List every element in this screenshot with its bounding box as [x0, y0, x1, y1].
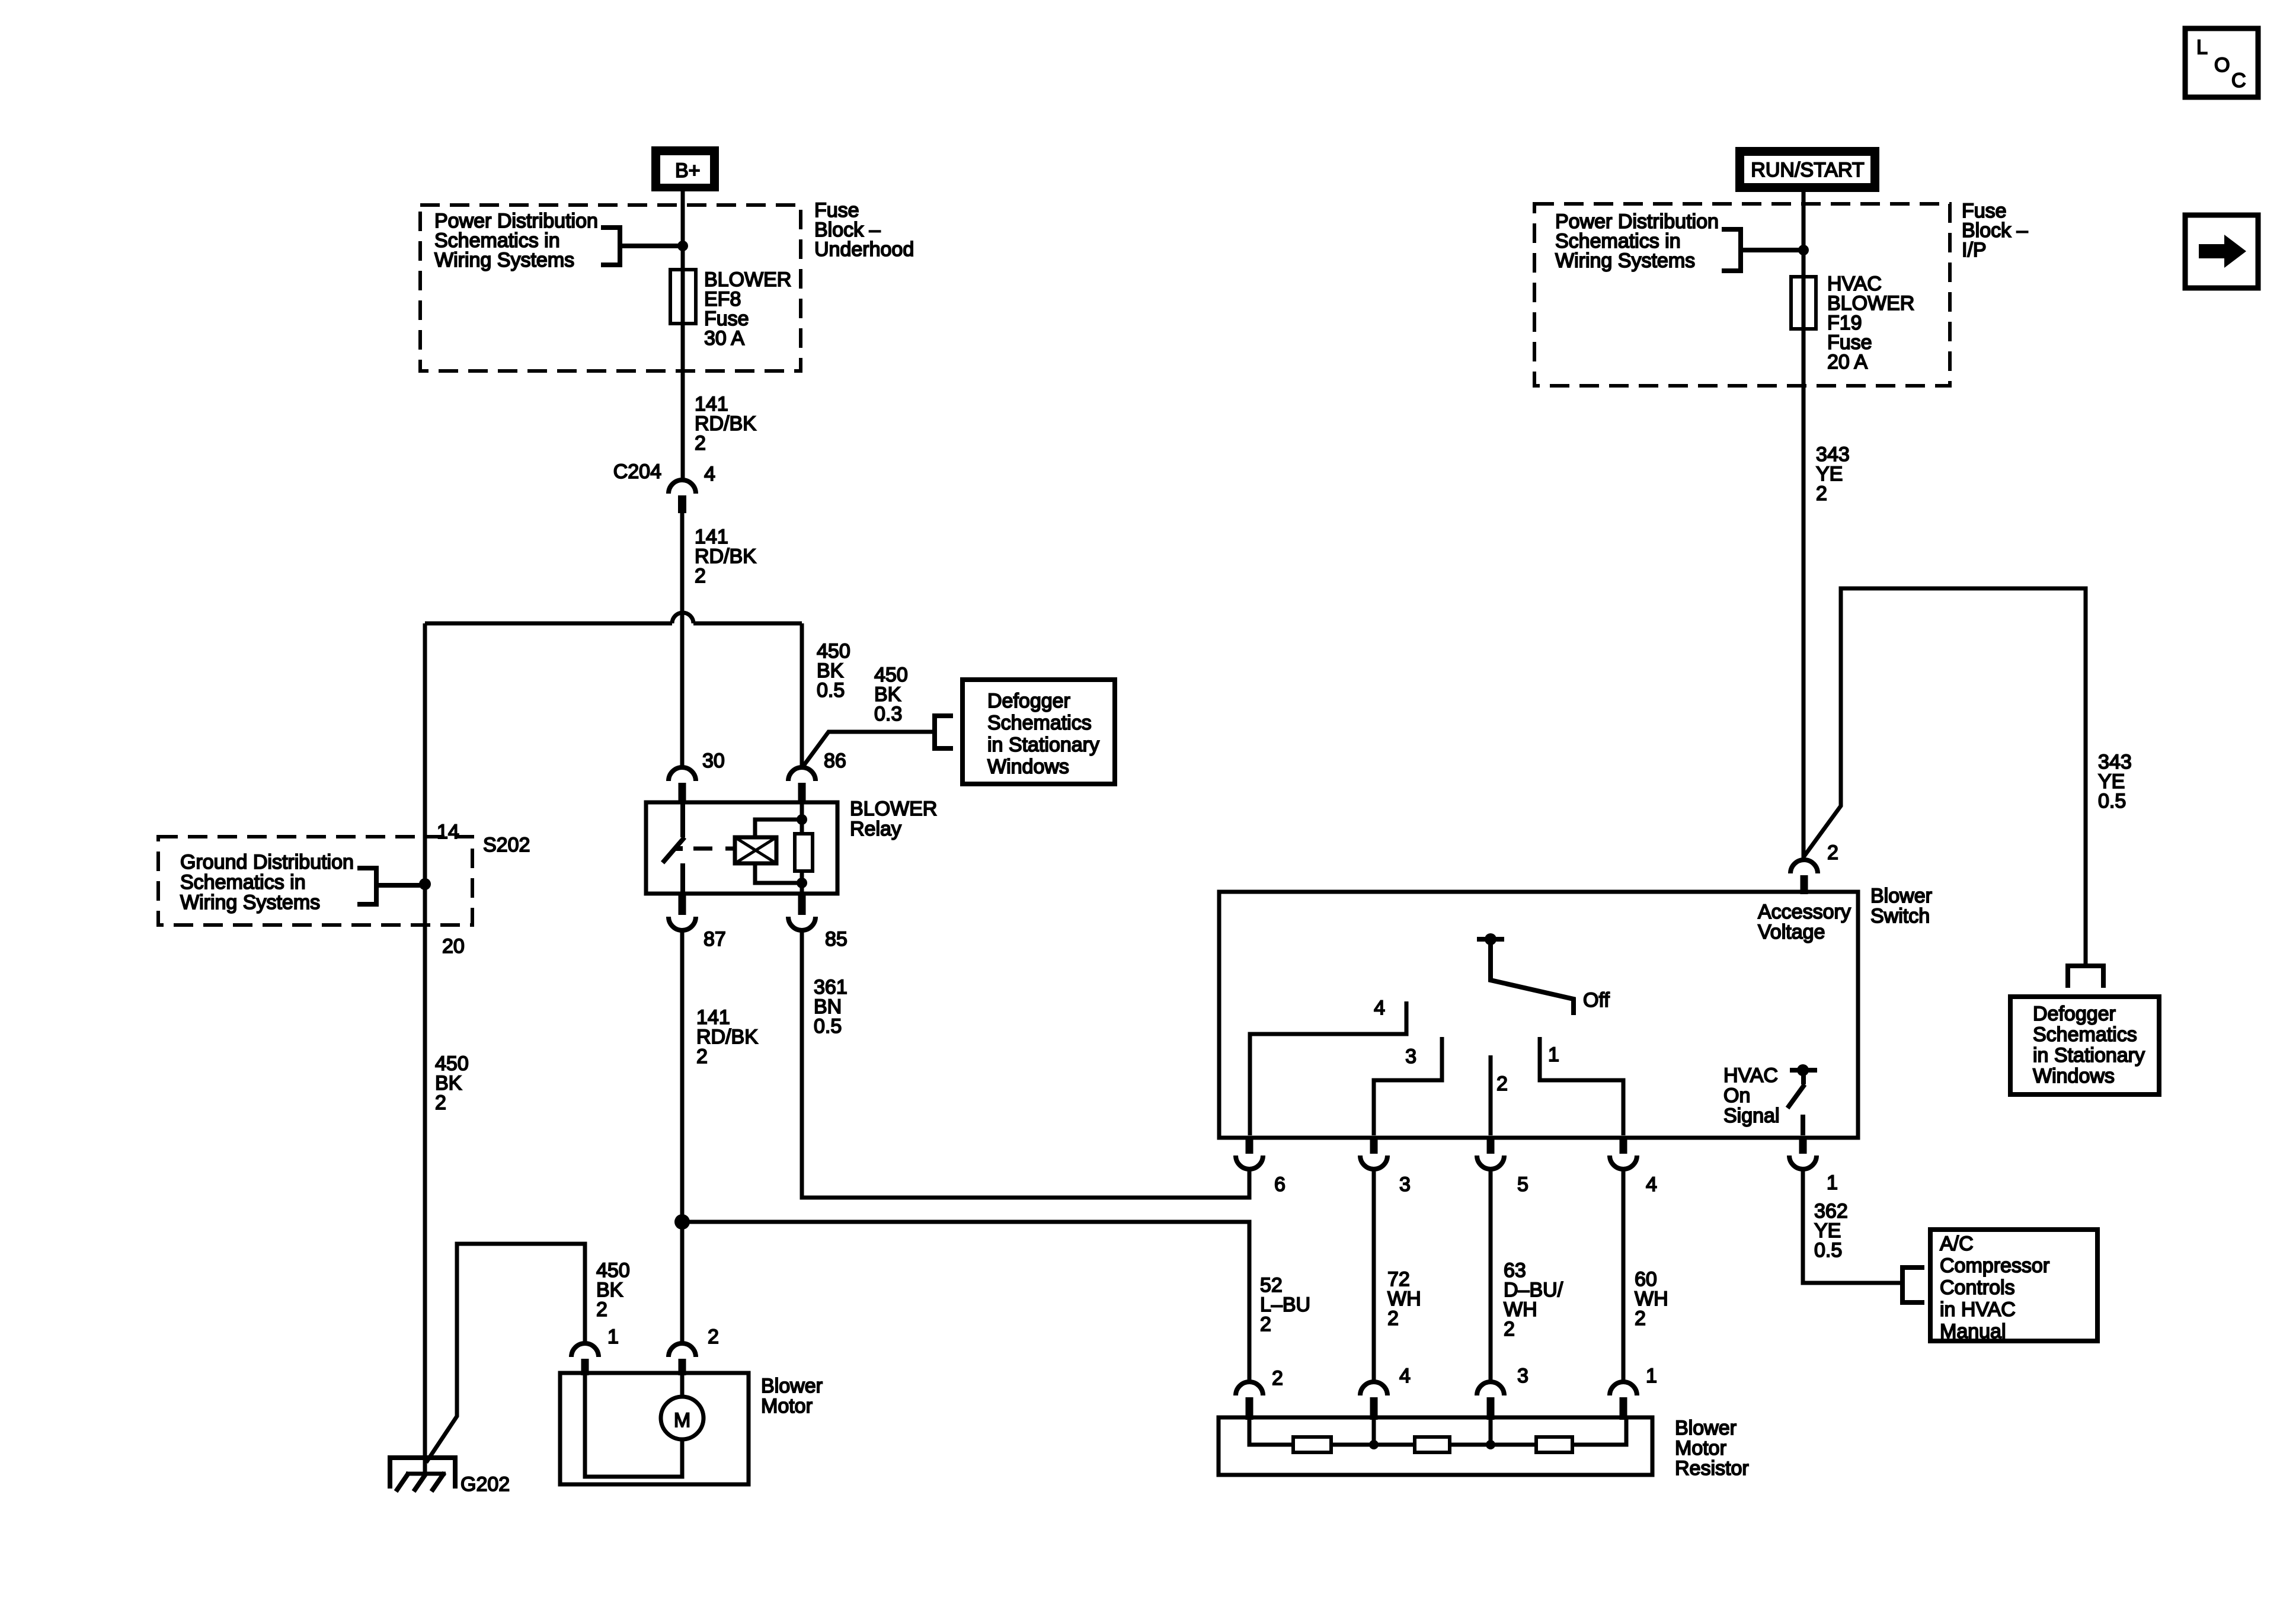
- svg-text:2: 2: [695, 432, 706, 454]
- svg-text:2: 2: [1635, 1307, 1646, 1330]
- svg-text:2: 2: [708, 1326, 719, 1348]
- resistor connector pin 3: [1477, 1365, 1528, 1420]
- svg-text:Accessory: Accessory: [1758, 901, 1851, 923]
- svg-text:20 A: 20 A: [1827, 351, 1868, 373]
- svg-text:C204: C204: [613, 460, 661, 483]
- label Blower Motor Resistor: [1675, 1417, 1749, 1480]
- label BLOWER Relay: [850, 798, 937, 840]
- label Power Distribution Schematics in Wiring Systems (top right): [1555, 210, 1719, 272]
- svg-text:2: 2: [1827, 841, 1838, 864]
- node junction dot on RUN/START feed: [1798, 245, 1809, 255]
- wire RUN/START down through fuse block: [1802, 192, 1806, 277]
- svg-text:0.5: 0.5: [2098, 790, 2126, 812]
- svg-text:O: O: [2214, 54, 2230, 76]
- svg-text:L: L: [2196, 36, 2208, 59]
- resistor connector pin 1: [1610, 1365, 1657, 1420]
- node resistor junction dots: [1369, 1440, 1379, 1449]
- label 343 YE 2: [1816, 443, 1850, 505]
- svg-text:Windows: Windows: [987, 756, 1069, 778]
- label Ground Distribution Schematics in Wiring Systems: [180, 851, 354, 914]
- svg-text:Signal: Signal: [1723, 1105, 1780, 1127]
- page reference LOC box: [2185, 28, 2258, 97]
- relay connector pin 86: [788, 750, 846, 804]
- motor Blower Motor box: [560, 1373, 749, 1484]
- relay connector pin 85: [788, 895, 848, 950]
- label 141 RD/BK 2 (below C204): [695, 526, 756, 587]
- bracket reference symbol (power distribution top-left): [601, 228, 683, 265]
- label 450 BK 2 (left ground wire): [435, 1052, 469, 1114]
- box Defogger Schematics in Stationary Windows (middle): [962, 680, 1115, 784]
- switch contact position 1: [1540, 1037, 1623, 1135]
- svg-text:in Stationary: in Stationary: [2033, 1044, 2145, 1067]
- svg-text:B+: B+: [675, 159, 701, 182]
- svg-text:Blower: Blower: [761, 1375, 823, 1397]
- wire relay pin 85 down and right to switch pin 6: [802, 930, 1249, 1198]
- wire 72 WH 2 switch pin 3 to resistor pin 4: [1372, 1170, 1376, 1382]
- svg-text:A/C: A/C: [1940, 1233, 1974, 1255]
- svg-text:Wiring Systems: Wiring Systems: [1555, 249, 1695, 272]
- svg-text:BLOWER: BLOWER: [850, 798, 937, 820]
- svg-text:6: 6: [1274, 1173, 1285, 1196]
- svg-text:14: 14: [437, 821, 459, 843]
- label 450 BK 0.5: [817, 640, 850, 702]
- switch Blower Switch box: [1219, 892, 1858, 1138]
- svg-text:2: 2: [1272, 1367, 1283, 1390]
- svg-text:30 A: 30 A: [704, 327, 744, 350]
- svg-text:4: 4: [1374, 997, 1385, 1019]
- svg-text:87: 87: [703, 928, 726, 950]
- svg-text:1: 1: [1827, 1172, 1838, 1194]
- label 362 YE 0.5: [1814, 1200, 1848, 1262]
- svg-text:Blower: Blower: [1675, 1417, 1737, 1439]
- svg-text:in HVAC: in HVAC: [1940, 1298, 2016, 1321]
- wire 450 BK 0.3 branch from pin 86 to defogger reference: [802, 732, 935, 768]
- label Power Distribution Schematics in Wiring Systems (top left): [434, 210, 598, 271]
- label Blower Switch: [1870, 885, 1932, 927]
- relay mechanical link dashes: [693, 847, 736, 851]
- svg-text:Relay: Relay: [850, 818, 901, 840]
- label HVAC BLOWER F19 Fuse 20 A: [1827, 273, 1914, 373]
- off-page fork to defogger schematics box: [935, 716, 953, 748]
- fuse block underhood dashed box: [420, 205, 801, 371]
- switch contact position 4: [1250, 1001, 1406, 1135]
- switch connector pin 4: [1610, 1137, 1657, 1196]
- label 141 RD/BK 2 (pin 87 wire): [696, 1006, 758, 1068]
- svg-text:5: 5: [1517, 1173, 1528, 1196]
- relay connector pin 87: [669, 895, 726, 950]
- label 343 YE 0.5: [2098, 751, 2132, 812]
- box Defogger Schematics in Stationary Windows (right): [2010, 997, 2159, 1094]
- svg-text:1: 1: [1548, 1044, 1559, 1066]
- svg-text:30: 30: [702, 750, 725, 772]
- svg-text:1: 1: [607, 1326, 619, 1348]
- blower motor connector pin 2: [669, 1326, 719, 1375]
- svg-text:0.5: 0.5: [817, 679, 845, 702]
- svg-text:0.5: 0.5: [814, 1015, 842, 1038]
- svg-text:Switch: Switch: [1870, 905, 1930, 927]
- svg-text:Schematics in: Schematics in: [180, 871, 306, 894]
- svg-text:4: 4: [1646, 1173, 1657, 1196]
- wire switch pin 6 down (joins 361 BN horizontal): [1248, 1170, 1252, 1198]
- svg-text:Ground Distribution: Ground Distribution: [180, 851, 354, 873]
- svg-text:Underhood: Underhood: [814, 238, 914, 261]
- page reference arrow box: [2185, 215, 2258, 288]
- svg-text:2: 2: [1260, 1313, 1271, 1336]
- wire fuse F19 down to switch connector 2: [1802, 329, 1806, 859]
- svg-text:2: 2: [695, 565, 706, 587]
- relay BLOWER Relay box: [646, 802, 837, 894]
- off-page fork to A/C compressor controls box: [1902, 1267, 1924, 1302]
- switch rotary wiper (Off position): [1477, 933, 1574, 1015]
- label 63 D-BU/WH 2: [1504, 1259, 1563, 1340]
- svg-text:2: 2: [1816, 482, 1827, 505]
- svg-text:G202: G202: [461, 1473, 510, 1496]
- label Fuse Block - Underhood: [814, 199, 914, 261]
- splice S202 dashed box: [158, 837, 472, 925]
- wire C204 down to relay pin 30: [680, 513, 685, 768]
- svg-text:Defogger: Defogger: [987, 690, 1070, 712]
- switch connector pin 2 (top of blower switch): [1790, 841, 1838, 894]
- svg-text:2: 2: [435, 1092, 446, 1114]
- svg-text:HVAC: HVAC: [1723, 1064, 1778, 1087]
- wire 343 YE 0.5 branch to defogger reference: [1804, 588, 2086, 966]
- blower motor connector pin 1: [571, 1326, 619, 1375]
- svg-text:Motor: Motor: [1675, 1437, 1726, 1459]
- label Fuse Block - I/P: [1962, 200, 2028, 261]
- svg-text:Voltage: Voltage: [1758, 921, 1825, 943]
- off-page fork to defogger schematics box (right): [2068, 966, 2103, 988]
- svg-text:2: 2: [596, 1298, 607, 1321]
- svg-text:M: M: [674, 1409, 690, 1432]
- svg-text:RUN/START: RUN/START: [1751, 159, 1864, 181]
- label 72 WH 2: [1387, 1268, 1421, 1330]
- bracket reference symbol (ground distribution): [357, 868, 425, 904]
- svg-text:Schematics: Schematics: [987, 712, 1092, 734]
- label Blower Motor: [761, 1375, 823, 1417]
- resistor element 2: [1415, 1437, 1450, 1452]
- connector C204 pin 4: [613, 460, 715, 513]
- switch contact position 2: [1489, 1055, 1493, 1135]
- switch connector pin 6: [1236, 1137, 1285, 1196]
- svg-text:0.5: 0.5: [1814, 1239, 1842, 1262]
- svg-text:4: 4: [1399, 1365, 1411, 1387]
- switch connector pin 3: [1360, 1137, 1411, 1196]
- svg-text:85: 85: [825, 928, 848, 950]
- resistor connector pin 4: [1360, 1365, 1411, 1420]
- svg-text:C: C: [2231, 69, 2246, 92]
- switch HVAC On contact: [1787, 1064, 1817, 1135]
- box A/C Compressor Controls in HVAC Manual: [1930, 1230, 2097, 1343]
- wire B+ terminal down through fuse block: [681, 191, 685, 480]
- svg-text:Windows: Windows: [2033, 1065, 2115, 1087]
- svg-text:Wiring Systems: Wiring Systems: [180, 891, 320, 914]
- fuse block I/P dashed box: [1534, 204, 1950, 386]
- switch connector pin 1 (HVAC on signal): [1789, 1137, 1838, 1194]
- ground G202 symbol: [390, 1458, 455, 1491]
- svg-text:3: 3: [1405, 1045, 1416, 1068]
- svg-text:Controls: Controls: [1940, 1276, 2015, 1299]
- relay switch contact (pin 30 to 87): [663, 802, 685, 894]
- resistor element 3: [1536, 1437, 1572, 1452]
- svg-text:20: 20: [442, 935, 465, 958]
- relay coil: [735, 837, 776, 863]
- svg-text:On: On: [1723, 1084, 1750, 1107]
- svg-text:Compressor: Compressor: [1940, 1254, 2049, 1277]
- svg-text:86: 86: [824, 750, 846, 772]
- wire relay pin 87 down to blower motor: [680, 930, 685, 1343]
- svg-text:Motor: Motor: [761, 1395, 813, 1417]
- motor M symbol: [661, 1397, 703, 1439]
- fuse BLOWER EF8 30A: [670, 270, 696, 324]
- svg-text:in Stationary: in Stationary: [987, 734, 1099, 756]
- wire ground distribution horizontal with hop over B+ wire: [425, 613, 802, 623]
- svg-text:Off: Off: [1583, 989, 1610, 1012]
- motor internal wires: [585, 1373, 682, 1477]
- label HVAC On Signal: [1723, 1064, 1780, 1127]
- wire 450 BK 0.5 down to relay pin 86: [800, 623, 804, 768]
- resistor element 1: [1293, 1437, 1331, 1452]
- resistor internal wires: [1249, 1417, 1626, 1445]
- wire left branch to S202 and ground: [423, 623, 427, 1464]
- svg-text:Manual: Manual: [1940, 1320, 2006, 1343]
- svg-text:1: 1: [1646, 1365, 1657, 1387]
- power terminal B+: [651, 146, 719, 191]
- bracket reference symbol (power distribution top-right): [1722, 229, 1803, 271]
- svg-text:2: 2: [1387, 1307, 1399, 1330]
- svg-text:I/P: I/P: [1962, 239, 1987, 261]
- wire 63 D-BU/WH 2 switch pin 5 to resistor pin 3: [1489, 1170, 1493, 1382]
- label 141 RD/BK 2 (above C204): [695, 393, 756, 454]
- resistor Blower Motor Resistor box: [1219, 1417, 1652, 1475]
- svg-text:Wiring Systems: Wiring Systems: [434, 249, 574, 271]
- wire blower motor pin 1 branch to ground: [426, 1244, 585, 1462]
- relay connector pin 30: [669, 750, 725, 804]
- label 52 L-BU 2: [1260, 1274, 1310, 1336]
- fuse HVAC BLOWER F19 20A: [1791, 277, 1816, 329]
- node junction dot on B+ feed: [677, 241, 688, 251]
- svg-text:Defogger: Defogger: [2033, 1003, 2116, 1025]
- node junction dot S202: [419, 878, 431, 890]
- relay internal wires and nodes: [755, 802, 802, 894]
- label BLOWER EF8 Fuse 30 A: [704, 268, 791, 350]
- switch connector pin 5: [1477, 1137, 1528, 1196]
- resistor connector pin 2: [1236, 1367, 1283, 1420]
- svg-text:Resistor: Resistor: [1675, 1457, 1749, 1480]
- label 450 BK 0.3: [874, 664, 908, 725]
- svg-text:Blower: Blower: [1870, 885, 1932, 907]
- wire junction to blower motor resistor pin 2: [682, 1222, 1249, 1382]
- svg-text:3: 3: [1399, 1173, 1411, 1196]
- label 60 WH 2: [1635, 1268, 1668, 1330]
- svg-text:Schematics: Schematics: [2033, 1023, 2137, 1046]
- label 450 BK 2 (motor ground wire): [596, 1259, 630, 1321]
- svg-text:3: 3: [1517, 1365, 1528, 1387]
- wire 60 WH 2 switch pin 4 to resistor pin 1: [1622, 1170, 1626, 1382]
- power terminal RUN/START: [1735, 147, 1879, 192]
- svg-text:2: 2: [1504, 1318, 1515, 1340]
- node junction dot motor feed: [674, 1214, 690, 1230]
- relay coil suppression resistor: [795, 834, 813, 871]
- svg-text:S202: S202: [483, 834, 530, 856]
- svg-text:4: 4: [704, 463, 715, 485]
- switch contact position 3: [1374, 1037, 1442, 1135]
- wire 362 YE 0.5 switch pin 1 to A/C compressor controls: [1803, 1170, 1902, 1283]
- svg-text:0.3: 0.3: [874, 703, 902, 725]
- svg-text:2: 2: [1496, 1073, 1508, 1095]
- svg-text:2: 2: [696, 1045, 708, 1068]
- label Accessory Voltage: [1758, 901, 1851, 943]
- label 361 BN 0.5 (pin 85 wire): [814, 976, 848, 1038]
